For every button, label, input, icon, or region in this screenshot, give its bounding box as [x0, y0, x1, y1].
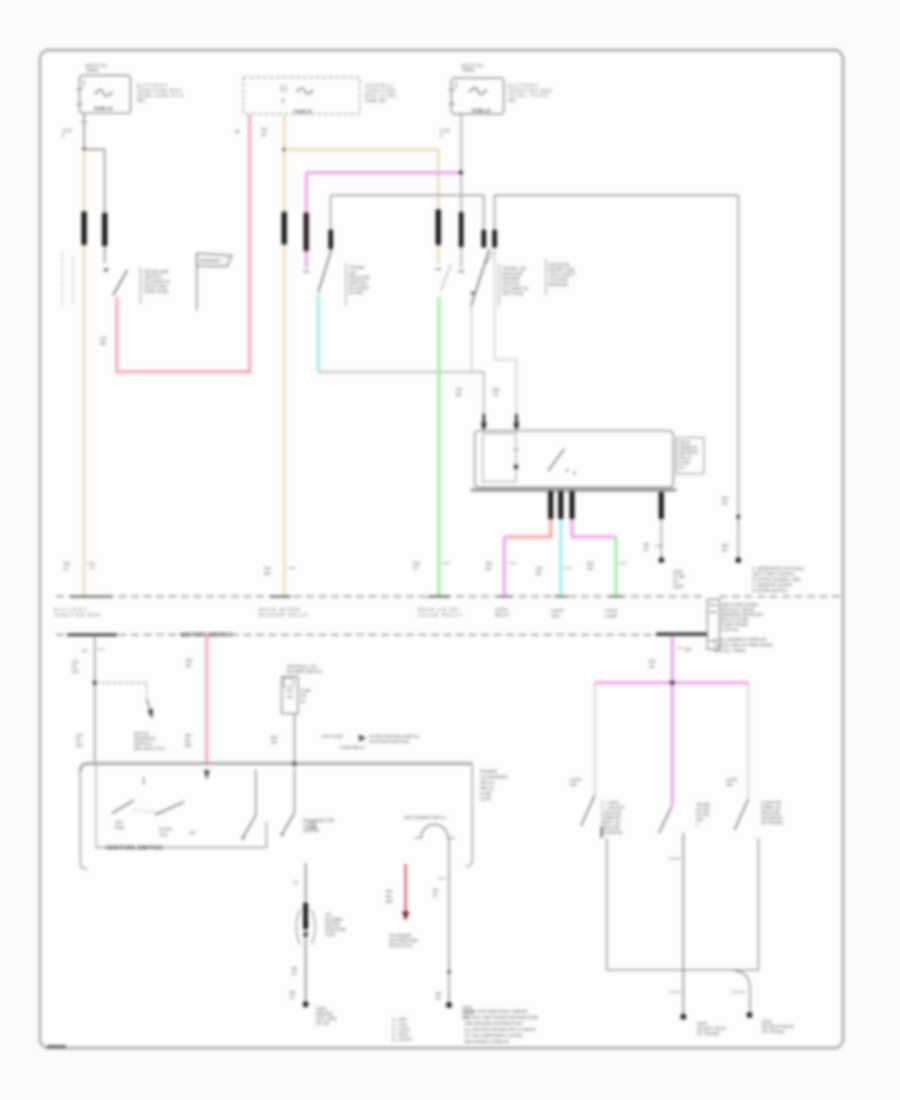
svg-text:57: 57: [290, 995, 295, 1000]
svg-text:IS IN RUN POSITION,: IS IN RUN POSITION,: [369, 739, 410, 744]
svg-text:56: 56: [235, 129, 240, 134]
switch S-green arm faint: [441, 264, 452, 291]
text left of arc: [303, 818, 334, 833]
switch S2 text: [346, 263, 370, 306]
svg-text:20A: 20A: [508, 98, 516, 103]
svg-text:INTERIOR: INTERIOR: [200, 259, 220, 264]
component labels between bus lines: [54, 607, 618, 619]
SWE arm: [283, 813, 295, 833]
wire from loom to switch S1 terminal: [104, 246, 106, 263]
bus line 1 dark segment mid1: [270, 596, 291, 598]
W10 tick upper: [668, 858, 681, 860]
wire labels above bus line 1: [413, 561, 627, 576]
ignition internal dashed link: [134, 810, 160, 813]
fuse F3 element: [468, 88, 488, 94]
svg-text:197: 197: [76, 743, 84, 748]
SWC arm: [735, 799, 749, 830]
svg-text:FUSE 27: FUSE 27: [294, 109, 313, 114]
svg-text:57: 57: [292, 971, 297, 976]
svg-text:ACCESSORY: ACCESSORY: [480, 775, 508, 780]
note text block lower right of bus: [714, 637, 773, 653]
see-note text line with arrow glyph: [322, 734, 419, 750]
connector label C170 below F1: [62, 128, 73, 138]
C2 label on W6: [82, 648, 105, 653]
svg-text:RD: RD: [100, 341, 106, 346]
bottom right box: [607, 838, 759, 970]
bus line 1 dark segment left: [70, 596, 112, 598]
bus dashed line 1: [56, 596, 706, 598]
magenta wire W3 horizontal: [306, 171, 460, 174]
tick on relay ground wire: [655, 545, 663, 547]
ignition switch outer box top: [80, 764, 472, 773]
relay U1 contact marks: [566, 469, 576, 474]
SWD arm: [244, 815, 256, 836]
loom on rail A drop: [481, 230, 486, 248]
svg-text:LUGG: LUGG: [551, 608, 564, 613]
faint drop wire left to SWA: [594, 683, 596, 796]
switch legend text mid: [696, 802, 711, 827]
ground dot G201: [446, 1002, 452, 1008]
note text block far right above bus: [752, 566, 804, 593]
switch S3 text: [499, 264, 528, 306]
svg-text:C233: C233: [325, 932, 336, 937]
ignition position labels: [115, 820, 196, 837]
svg-text:B4: B4: [190, 830, 196, 835]
svg-text:REAR WIPER: REAR WIPER: [259, 607, 301, 612]
svg-text:SW: SW: [726, 782, 733, 787]
key-in switch text: [134, 731, 166, 751]
svg-text:LOCKS: RELAY PWR FROM: LOCKS: RELAY PWR FROM: [714, 643, 773, 648]
ignition switch inner box bottom: [96, 847, 267, 849]
svg-text:WH: WH: [264, 571, 271, 576]
junction dot on magenta horizontal: [670, 680, 675, 685]
switch S1 arm: [113, 270, 128, 296]
W11 tick: [731, 991, 746, 993]
arc connector symbol: [421, 825, 448, 839]
wire from CMP to ignition box: [294, 714, 296, 764]
text right of connector box: [721, 602, 764, 632]
svg-text:JUNCTION BOX: JUNCTION BOX: [54, 613, 100, 618]
ignition internal switch arm 1: [112, 800, 134, 813]
cyan wire C1 from S2: [317, 295, 320, 372]
svg-text:C2: C2: [82, 648, 88, 653]
svg-text:687: 687: [685, 647, 693, 652]
rail B labels: [722, 496, 729, 553]
magenta horizontal below bus: [595, 681, 749, 684]
text right of F1: [137, 83, 183, 103]
wire W2 tan from F2 to bus: [283, 114, 286, 596]
faint drop wire right to SWC: [747, 683, 749, 799]
svg-text:OF TRUNK): OF TRUNK): [697, 1031, 720, 1036]
green wire W5 from tan switch: [437, 297, 440, 596]
svg-text:DETAILS, SEE POWER DISTRIBUTIO: DETAILS, SEE POWER DISTRIBUTION: [464, 1015, 538, 1020]
junction blob at box top: [292, 761, 297, 766]
SWD terminal: [242, 837, 245, 840]
red arrow destination text: [389, 933, 418, 948]
salmon wire from relay output 1: [504, 519, 550, 537]
svg-text:5 = START: 5 = START: [392, 1037, 412, 1042]
loom on S2 rail wire: [328, 230, 333, 249]
svg-text:LB: LB: [649, 664, 654, 669]
rail B terminal dot: [735, 557, 741, 563]
svg-text:FUSE 15A: FUSE 15A: [365, 98, 386, 103]
svg-text:57: 57: [433, 893, 438, 898]
relay input arrow 1: [481, 414, 487, 431]
loom on relay ground wire: [659, 492, 664, 519]
svg-text:57: 57: [90, 565, 95, 570]
svg-text:30A: 30A: [137, 98, 145, 103]
svg-text:PK: PK: [722, 548, 728, 553]
bus line 2 dark segment left: [67, 633, 117, 636]
svg-text:BK: BK: [456, 392, 462, 397]
wire label W1 at bus: [63, 561, 95, 571]
node B junction dot on W2: [282, 148, 286, 152]
svg-text:LEASE RELAY: LEASE RELAY: [418, 613, 462, 618]
W10 tick lower: [669, 991, 681, 993]
flag symbol FL1: [197, 253, 232, 310]
relay input arrow 2: [513, 414, 519, 431]
bus line 1 right portion: [720, 596, 843, 598]
switch S1 terminal circle: [104, 268, 108, 272]
svg-text:ANTI-THEFT ENTRY: ANTI-THEFT ENTRY: [752, 572, 795, 577]
wire label A near relay input 1: [456, 387, 463, 397]
svg-text:FUSE 13: FUSE 13: [472, 108, 491, 113]
cyan wire from relay output 2: [559, 519, 562, 596]
fuse box F1 (battery junction box): [77, 75, 131, 113]
wire W4 from F3 down: [460, 114, 462, 268]
svg-text:OG: OG: [587, 566, 593, 571]
ignition switch pole SWD wire: [255, 770, 257, 815]
text right of W8 bracket: [325, 912, 346, 937]
loom on W3: [304, 213, 309, 251]
wire W11 box right to ground: [733, 970, 750, 1012]
switch legend text left: [601, 800, 625, 835]
wire W7 from arc to ground: [448, 838, 450, 1005]
W8 labels lower: [290, 966, 298, 1000]
svg-text:IGNITION SWITCH: IGNITION SWITCH: [106, 846, 162, 852]
gray rail A: [331, 195, 484, 230]
connector label below F3: [440, 128, 451, 138]
fuse F1 element: [94, 90, 114, 96]
terminal dot relay ground: [659, 557, 665, 563]
switch S3 pivot dot: [471, 291, 474, 294]
P2 arrow into box: [204, 770, 210, 780]
svg-text:BK: BK: [186, 663, 192, 668]
W7 small dot: [447, 970, 450, 973]
ignition switch inner box left edge: [95, 764, 97, 848]
connector bracket right on W8: [312, 910, 316, 945]
pink wire P2 from bus to ignition box: [205, 635, 208, 765]
arc connector base ticks: [414, 837, 455, 839]
svg-text:57: 57: [644, 547, 649, 552]
gray wire from cyan to relay input 1: [318, 372, 484, 414]
svg-text:SYSTEM NOTES: SYSTEM NOTES: [752, 588, 787, 593]
wire from F1 to node A: [83, 113, 85, 149]
border mark bottom left: [47, 1045, 66, 1047]
svg-text:2002 MODELS SIMILAR.: 2002 MODELS SIMILAR.: [464, 1039, 510, 1044]
svg-text:DELAY: DELAY: [480, 780, 494, 785]
ignition internal switch arm 2: [155, 802, 184, 815]
svg-text:NOTE: FOR ADDITIONAL WIRING: NOTE: FOR ADDITIONAL WIRING: [464, 1009, 528, 1014]
svg-text:C1: C1: [679, 465, 685, 470]
faint wire rail B drop to relay input 2: [495, 248, 517, 415]
svg-text:(IN LOCK CYL): (IN LOCK CYL): [134, 746, 166, 751]
tick C on wire: [80, 121, 88, 123]
svg-text:LUGG: LUGG: [495, 607, 508, 612]
connector box at bus right: [707, 599, 719, 649]
tan branch terminal: [436, 268, 442, 270]
svg-text:BLOWER SWITCH: BLOWER SWITCH: [287, 669, 322, 674]
pink wire label near F2: [235, 127, 268, 137]
ground dot G200: [303, 1001, 309, 1007]
svg-text:MODULE: MODULE: [549, 282, 568, 287]
key-in arrow symbol: [147, 699, 153, 719]
SWC label: [726, 777, 738, 787]
W6 wire color label: [72, 659, 80, 674]
node C junction dot magenta/W4: [459, 170, 463, 174]
svg-text:LAMP: LAMP: [605, 614, 617, 619]
text right of outer box: [480, 769, 508, 802]
ignition switch outer box left edge: [80, 772, 87, 869]
green wire to bus from violet: [614, 537, 617, 596]
svg-text:BJB ALL TIMES: BJB ALL TIMES: [714, 648, 746, 653]
wire W10 through box to ground: [682, 833, 684, 1017]
bottom note block B: [464, 1009, 538, 1044]
magenta wire to bus from salmon: [503, 537, 506, 596]
svg-text:PK: PK: [722, 501, 728, 506]
svg-text:FUSE RELAY: FUSE RELAY: [340, 745, 365, 750]
loom on W8: [303, 903, 308, 929]
SWA arm: [581, 796, 595, 826]
svg-text:PARK POS): PARK POS): [144, 289, 169, 294]
P2 labels: [185, 658, 193, 748]
faint wire from S3 pivot to relay feed: [471, 306, 473, 372]
W10 ground dot: [680, 1014, 686, 1020]
wire label W2 at bus: [264, 566, 296, 576]
fuse F2 element: [296, 88, 314, 94]
gray rail B: [495, 195, 739, 559]
text right of F3: [508, 83, 552, 103]
svg-text:SYSTEM SHOWN, SEE: SYSTEM SHOWN, SEE: [752, 577, 801, 582]
svg-text:ACC: ACC: [159, 832, 168, 837]
pink wire U from S1 to F2 feed: [117, 115, 250, 372]
bus line 2 dark segment right end: [656, 633, 707, 636]
svg-text:LG: LG: [63, 566, 68, 571]
W9 labels: [649, 647, 693, 669]
svg-text:10A: 10A: [300, 693, 308, 698]
loom on W1: [81, 212, 86, 246]
svg-text:BK: BK: [486, 566, 492, 571]
junction dot on W8: [303, 932, 308, 937]
svg-text:ALL SPLICES SHOWN ARE CLOSEST: ALL SPLICES SHOWN ARE CLOSEST: [464, 1027, 536, 1032]
text right of SWE: [308, 820, 317, 830]
splice text right of green wire: [673, 569, 686, 589]
magenta wire W3 vertical to switch S2: [305, 173, 308, 268]
SWA label: [570, 777, 582, 787]
label left of relay ground tick: [644, 542, 650, 552]
svg-text:687: 687: [386, 899, 394, 904]
ground G201 label: [462, 1005, 475, 1020]
svg-text:197: 197: [72, 669, 80, 674]
wire label B near relay input 2: [493, 387, 500, 397]
W11 ground label: [762, 1019, 794, 1034]
tick on W7: [438, 878, 446, 880]
svg-text:AND GROUND DISTRIBUTION.: AND GROUND DISTRIBUTION.: [464, 1021, 523, 1026]
svg-text:C270: C270: [480, 797, 491, 802]
ignition switch outer box right edge: [466, 764, 473, 867]
svg-text:BK: BK: [536, 571, 542, 576]
red wire label: [386, 889, 394, 904]
svg-text:(PAGE 10-1): (PAGE 10-1): [389, 943, 413, 948]
relay U1 switch arm: [548, 449, 564, 471]
svg-text:(CJB): (CJB): [480, 791, 492, 796]
relay output loom 1: [548, 491, 553, 519]
svg-text:LG: LG: [493, 392, 498, 397]
svg-text:2: ALL MODELS W/REAR: 2: ALL MODELS W/REAR: [714, 637, 767, 642]
wire branch node A right: [84, 149, 105, 213]
svg-text:C2: C2: [293, 880, 299, 885]
W10 ground label: [697, 1021, 726, 1036]
relay U1 inner coil rect: [483, 434, 516, 482]
svg-text:TO THE COMPONENT LISTED.: TO THE COMPONENT LISTED.: [464, 1033, 523, 1038]
svg-text:SOL: SOL: [551, 614, 561, 619]
switch S1 text: [141, 267, 170, 304]
bus line 1 dark segment mid2: [428, 596, 450, 598]
SWA output tick: [601, 827, 603, 838]
switch S2 wire up to rail A: [330, 195, 332, 251]
ground wire W8: [305, 863, 307, 1004]
text right of F2: [365, 83, 397, 103]
loom on tan branch: [436, 210, 441, 246]
svg-text:1: W/REMOTE KEYLESS: 1: W/REMOTE KEYLESS: [752, 566, 804, 571]
node A junction dot: [82, 147, 86, 151]
W4 terminal: [459, 271, 465, 273]
wire label on pink vertical: [100, 336, 107, 346]
svg-text:POWER: POWER: [480, 769, 498, 774]
relay U1 trunk release relay box: [475, 431, 674, 488]
svg-text:G200: G200: [673, 584, 684, 589]
svg-text:C270 22: C270 22: [721, 627, 739, 632]
W3 terminal: [304, 271, 310, 273]
svg-text:TIMES: TIMES: [462, 68, 475, 73]
node D junction dot on W6: [93, 681, 97, 685]
svg-text:SW: SW: [570, 782, 577, 787]
switch S3 arm: [471, 249, 490, 306]
relay output loom 3: [570, 491, 575, 519]
violet wire from relay output 3: [572, 519, 616, 537]
svg-text:RELAY: RELAY: [495, 613, 509, 618]
svg-text:LB: LB: [261, 132, 266, 137]
svg-text:RELAY: RELAY: [480, 786, 494, 791]
SWE wire inside box: [294, 768, 296, 813]
fuse box F3 label HOT AT ALL TIMES: [461, 63, 484, 73]
svg-text:LUGG: LUGG: [605, 608, 618, 613]
ignition switch inner box right edge: [266, 822, 268, 848]
tan branch wire node B to S-green: [284, 150, 438, 265]
svg-text:HOT FUSE: HOT FUSE: [322, 734, 343, 739]
fuse box F2 dashed (interior fuse panel): [243, 77, 359, 114]
bus line 1 small dark segs at wire crossings: [498, 596, 623, 598]
magenta wire W9 from bus: [671, 637, 674, 806]
red arrowhead: [402, 912, 410, 922]
svg-text:RUN: RUN: [115, 825, 124, 830]
bottom note block A: [392, 1017, 412, 1042]
relay U1 connector tab C1: [677, 438, 705, 474]
svg-text:2: REMOTE ENTRY: 2: REMOTE ENTRY: [752, 583, 793, 588]
fuse box F3: [449, 78, 504, 114]
svg-text:OF I/P): OF I/P): [316, 1021, 330, 1026]
svg-text:VT: VT: [413, 566, 419, 571]
loom on W4: [459, 212, 464, 247]
svg-text:WASHER RELAY: WASHER RELAY: [259, 613, 308, 618]
rail B dot upper: [736, 515, 740, 519]
switch S2 arm: [318, 250, 331, 293]
SWE terminal: [281, 833, 284, 836]
connector bracket left on W8: [296, 910, 300, 945]
svg-text:C2: C2: [300, 699, 306, 704]
SWB arm: [659, 807, 672, 833]
svg-text:OG: OG: [271, 740, 277, 745]
relay ground wire right: [660, 491, 662, 559]
loom on W2: [282, 212, 287, 245]
wire W6 from bus to ignition box: [94, 635, 96, 763]
relay U1 bottom thick bar: [471, 488, 677, 492]
relay output loom 2: [558, 491, 563, 519]
fuse box F1 label HOT AT ALL TIMES: [85, 63, 108, 73]
wire W1 tan to bus: [83, 149, 86, 596]
svg-text:HEATER: HEATER: [303, 828, 319, 833]
component CMP above box (clutch connector): [282, 664, 322, 714]
svg-text:687: 687: [185, 743, 193, 748]
svg-text:REAR LID RE-: REAR LID RE-: [418, 607, 461, 612]
svg-text:SOLENOID: SOLENOID: [601, 830, 622, 835]
relay U1 contact dot: [514, 464, 519, 469]
loom on rail B drop: [492, 230, 497, 248]
W7 upper label: [433, 888, 439, 898]
dashed branch from node D: [95, 683, 147, 699]
svg-text:TIMES: TIMES: [86, 68, 99, 73]
bus dashed line 2: [56, 634, 707, 636]
W6 lower label: [76, 733, 84, 748]
CMP wire label: [271, 735, 278, 745]
svg-text:IN ON): IN ON): [349, 290, 364, 295]
svg-text:(IN TRUNK): (IN TRUNK): [761, 820, 784, 825]
svg-text:57: 57: [436, 996, 441, 1001]
svg-text:FUSE 24: FUSE 24: [94, 106, 113, 111]
ignition internal tick: [143, 777, 145, 785]
loom on branch wire: [102, 213, 107, 246]
relay U1 internal tick: [513, 449, 520, 451]
svg-text:OFF POS): OFF POS): [502, 291, 524, 296]
switch S1 dashed gang line 2: [72, 257, 74, 303]
text right block upper: [546, 259, 575, 295]
switch S3 second contact faint: [482, 252, 494, 270]
W7 lower label: [436, 991, 442, 1001]
switch S1 dashed gang line left: [61, 252, 63, 308]
switch legend text right: [761, 800, 784, 825]
ground G200 label: [316, 1006, 337, 1026]
svg-text:W/O CONNECTOR C2: W/O CONNECTOR C2: [404, 815, 447, 820]
red arrow wire to power dist: [405, 864, 407, 912]
W11 ground dot: [747, 1012, 753, 1018]
svg-text:OF TRUNK): OF TRUNK): [762, 1029, 785, 1034]
